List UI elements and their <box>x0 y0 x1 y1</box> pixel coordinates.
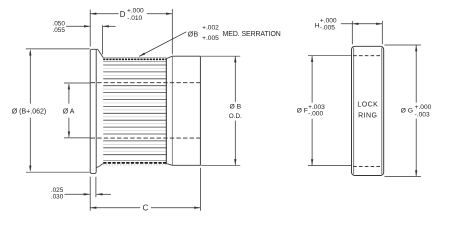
svg-text:-.010: -.010 <box>127 15 142 22</box>
svg-text:Ø A: Ø A <box>63 109 75 116</box>
svg-text:+.000: +.000 <box>127 8 144 15</box>
svg-text:ØB: ØB <box>188 32 199 39</box>
svg-text:-.005: -.005 <box>320 24 335 31</box>
svg-text:MED. SERRATION: MED. SERRATION <box>223 31 281 38</box>
svg-text:.030: .030 <box>51 194 64 201</box>
svg-text:Ø B: Ø B <box>229 103 241 110</box>
svg-text:Ø (B+.062): Ø (B+.062) <box>12 109 46 116</box>
svg-text:LOCK: LOCK <box>357 102 378 109</box>
svg-text:+.002: +.002 <box>202 24 219 31</box>
svg-text:-.000: -.000 <box>308 111 323 118</box>
svg-text:O.D.: O.D. <box>229 113 242 120</box>
svg-text:.055: .055 <box>52 27 65 34</box>
svg-text:H: H <box>315 22 320 29</box>
svg-text:Ø G: Ø G <box>401 107 413 114</box>
svg-text:D: D <box>120 10 126 19</box>
svg-text:Ø F: Ø F <box>297 107 308 114</box>
svg-text:+.000: +.000 <box>415 104 432 111</box>
svg-text:+.005: +.005 <box>202 35 219 42</box>
svg-text:RING: RING <box>358 112 377 119</box>
svg-text:-.003: -.003 <box>415 111 430 118</box>
svg-text:C: C <box>143 203 149 212</box>
